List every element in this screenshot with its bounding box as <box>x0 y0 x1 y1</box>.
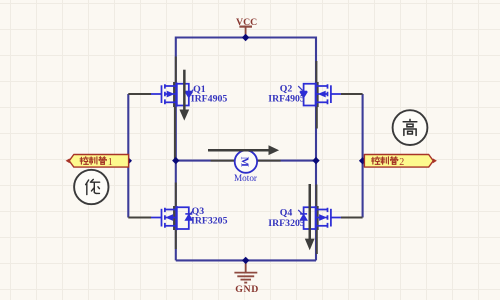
leader Q2 <box>298 86 303 91</box>
node junction GND <box>242 257 249 264</box>
node junction rail right <box>312 157 319 164</box>
arrow current motor <box>208 145 279 155</box>
svg-text:Motor: Motor <box>234 173 257 183</box>
node junction banner left <box>125 157 132 164</box>
wire left gate column <box>127 94 129 218</box>
ground GND <box>234 260 257 282</box>
node junction rail left <box>172 157 179 164</box>
wire right column <box>315 37 317 261</box>
wire bottom rail GND <box>176 259 316 261</box>
wire motor lead right <box>257 160 281 162</box>
transistor Q4 <box>300 206 341 230</box>
svg-text:M: M <box>239 157 251 168</box>
wire middle rail motor <box>176 160 316 162</box>
port 控制管1 <box>66 155 129 168</box>
leader Q3 <box>189 211 193 216</box>
annotation circle 高 (high) <box>393 110 428 145</box>
wire Q4 gate (dark part) <box>341 217 363 219</box>
annotation circle 低 (low) <box>74 170 108 204</box>
port 控制管2 <box>364 155 437 168</box>
svg-text:1: 1 <box>108 157 113 168</box>
node junction VCC <box>242 34 249 41</box>
motor M1 <box>235 150 257 172</box>
transistor Q2 <box>300 83 341 107</box>
leader Q1 <box>189 90 193 96</box>
svg-text:IRF4905: IRF4905 <box>191 94 228 105</box>
wire Q1 gate (dark part) <box>128 93 151 95</box>
wire motor lead left <box>211 160 236 162</box>
svg-text:Q4: Q4 <box>280 207 293 218</box>
wire left column <box>175 37 177 261</box>
wire dark segments left column <box>174 57 176 250</box>
leader Q4 <box>298 210 303 215</box>
wire Q2 gate (dark part) <box>341 93 363 95</box>
svg-text:IRF3205: IRF3205 <box>191 216 228 227</box>
svg-text:IRF4905: IRF4905 <box>268 93 305 104</box>
node junction banner right <box>359 157 366 164</box>
svg-text:VCC: VCC <box>236 17 257 28</box>
arrow current Q1 <box>179 70 189 121</box>
wire right gate column <box>362 94 364 218</box>
wire Q3 gate (dark part) <box>128 217 151 219</box>
arrow current Q4 <box>305 184 315 250</box>
svg-text:IRF3205: IRF3205 <box>268 218 305 229</box>
power VCC <box>239 27 252 38</box>
wire dark segments right column <box>316 61 317 254</box>
svg-text:2: 2 <box>399 157 404 168</box>
transistor Q1 <box>151 83 192 107</box>
svg-text:GND: GND <box>235 284 259 295</box>
wire top rail VCC <box>176 36 316 38</box>
transistor Q3 <box>151 206 192 230</box>
